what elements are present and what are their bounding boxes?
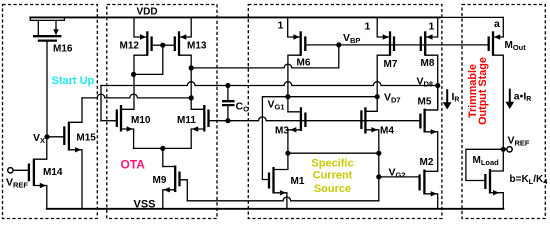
svg-text:1: 1	[278, 20, 284, 32]
svg-text:M5: M5	[418, 97, 432, 108]
svg-text:M13: M13	[187, 41, 207, 52]
OTA tail wire	[134, 147, 192, 149]
svg-text:Output Stage: Output Stage	[477, 57, 489, 125]
svg-text:VDD: VDD	[137, 7, 158, 18]
transistor M2	[420, 157, 438, 209]
OTA block dashed box	[107, 5, 217, 219]
transistor M6	[278, 17, 311, 96]
wire OTA output to VBP (hop over M6 drain)	[191, 46, 339, 68]
svg-text:M3: M3	[275, 126, 289, 137]
svg-text:M9: M9	[153, 175, 167, 186]
svg-text:Current: Current	[313, 170, 353, 182]
transistor MLoad	[466, 149, 503, 209]
svg-text:a: a	[494, 18, 500, 30]
gate bus wire M11/M3/M4/M5 (hop over VG1 vertical)	[209, 117, 421, 121]
svg-text:M16: M16	[53, 44, 73, 55]
svg-text:1: 1	[365, 21, 371, 33]
svg-text:M4: M4	[380, 126, 394, 137]
wire M9 gate to VG2 (hop over M1 source)	[187, 197, 378, 201]
node M1 drain	[285, 151, 290, 156]
transistor M8	[421, 17, 438, 110]
transistor MOut	[489, 17, 527, 149]
svg-text:Source: Source	[314, 183, 351, 195]
transistor M1	[269, 153, 305, 209]
svg-text:M11: M11	[177, 115, 196, 126]
svg-text:Start Up: Start Up	[52, 75, 95, 87]
node VD7	[375, 94, 380, 99]
M12/M13 gate junction node	[160, 43, 165, 48]
wire M1 drain to M2 drain	[288, 152, 379, 154]
transistor M11	[177, 105, 209, 148]
transistor M15	[47, 98, 96, 209]
current IR arrow	[443, 89, 460, 109]
wire VG2 to M2 gate	[379, 176, 420, 178]
svg-text:M1: M1	[291, 176, 305, 187]
M2 diode connection vertical	[378, 153, 380, 201]
node VD8	[435, 83, 440, 88]
trimmable output stage dashed box	[462, 5, 545, 219]
wire VD8 feedback (hops over M13 drain, M6 drain, M7 drain verticals)	[101, 82, 438, 86]
transistor M14	[8, 137, 63, 209]
svg-text:M8: M8	[421, 58, 435, 69]
svg-text:Specific: Specific	[311, 157, 353, 169]
M12 drain junction node	[131, 72, 136, 77]
transistor M9	[153, 166, 188, 209]
svg-text:1: 1	[429, 21, 435, 33]
wire VG1 node: M6 drain to VD7, left branch down to M1 gate	[262, 97, 377, 180]
VSS rail	[47, 208, 504, 210]
transistor M7	[365, 17, 398, 96]
node VG2	[376, 174, 381, 179]
specific current source block dashed box	[248, 5, 442, 219]
wire OTA output to M15 drain (hops over M10-gate vertical and M12-drain vertical)	[82, 94, 191, 98]
wire VDD extension to MOut	[440, 16, 503, 18]
node VX	[44, 134, 49, 139]
current a*IR arrow	[505, 89, 531, 109]
node OTA output	[189, 95, 194, 100]
svg-text:M14: M14	[43, 167, 63, 178]
VBP gate bus wire M6/M7/M8/MOut	[305, 44, 488, 46]
svg-text:VSS: VSS	[134, 198, 156, 210]
svg-text:OTA: OTA	[121, 158, 146, 172]
transistor M3	[275, 97, 305, 154]
transistor M5	[418, 86, 438, 172]
transistor M12	[120, 17, 163, 109]
transistor M4	[361, 97, 394, 154]
node M4 source / M2 drain	[376, 151, 381, 156]
svg-text:M2: M2	[420, 157, 434, 168]
node VBP	[336, 42, 341, 47]
start-up block dashed box	[3, 5, 98, 219]
svg-text:M12: M12	[120, 41, 140, 52]
node M13 drain / wire1	[189, 65, 194, 70]
svg-text:M7: M7	[384, 59, 398, 70]
transistor M16	[30, 17, 73, 136]
node Cc top	[225, 83, 230, 88]
node VG1	[285, 94, 290, 99]
tail junction node	[160, 146, 165, 151]
transistor M10	[101, 105, 151, 148]
capacitor CC	[222, 86, 249, 121]
node VREF output	[501, 147, 506, 152]
svg-text:M6: M6	[297, 57, 311, 68]
svg-text:M15: M15	[76, 132, 96, 143]
node Cc bottom	[225, 118, 230, 123]
svg-text:M10: M10	[131, 115, 151, 126]
transistor M13	[163, 17, 207, 109]
VDD rail	[30, 16, 440, 18]
